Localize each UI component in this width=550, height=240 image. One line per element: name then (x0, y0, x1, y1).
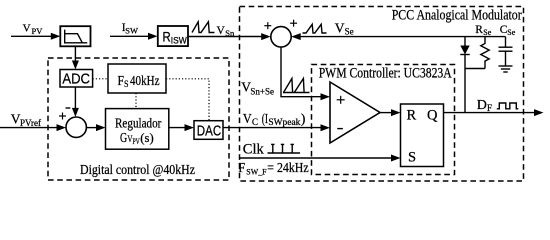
svg-text:ADC: ADC (62, 72, 90, 88)
svg-text:Regulador: Regulador (115, 116, 162, 131)
capacitor C_Se (499, 37, 513, 66)
pulse waveform icon D_F (497, 103, 519, 109)
wire: latch Q output D_F (444, 112, 536, 114)
svg-text:= 24kHz: = 24kHz (267, 160, 308, 175)
plus sign left of S1 (264, 22, 271, 29)
comparator U1 (330, 82, 380, 143)
summing junction S2 (66, 117, 86, 137)
minus sign in comparator (337, 128, 343, 130)
sawtooth icon V_Se (303, 24, 327, 33)
svg-text:PWM Controller: UC3823A: PWM Controller: UC3823A (319, 65, 452, 81)
label V_C (I_SWpeak) (243, 111, 306, 127)
resistor R_Se (481, 37, 489, 69)
R_ISW box (158, 26, 188, 46)
svg-text:R: R (163, 29, 171, 45)
svg-text:SWpeak: SWpeak (268, 117, 301, 127)
big sawtooth icon V_Sn+Se (283, 79, 310, 93)
svg-text:PV: PV (32, 26, 44, 36)
SR latch box (401, 104, 444, 167)
wire: I_SW input (110, 35, 149, 37)
svg-text:(s): (s) (140, 130, 153, 145)
dotted link Fs to DAC (166, 79, 209, 121)
ground (499, 66, 513, 72)
minus sign at S2 (66, 107, 71, 109)
svg-text:): ) (301, 111, 306, 126)
svg-text:G: G (120, 131, 127, 146)
svg-text:Q: Q (427, 108, 438, 124)
clock pulse icon (268, 144, 301, 153)
svg-text:Sn+Se: Sn+Se (250, 87, 274, 97)
diode D1 (464, 37, 466, 46)
DAC box (194, 121, 223, 140)
svg-text:S: S (408, 150, 416, 166)
svg-text:C: C (252, 117, 258, 127)
wire: V_PVref input (0, 127, 58, 129)
filter icon (65, 30, 88, 43)
svg-text:R: R (475, 24, 483, 36)
dashed box: Digital control @40kHz (48, 58, 229, 180)
dashed box: PCC Analogical Modulator (240, 7, 524, 182)
low-pass filter box F1 (60, 26, 90, 46)
svg-text:V: V (243, 112, 252, 127)
svg-text:PVref: PVref (20, 118, 41, 128)
svg-text:Clk: Clk (243, 141, 265, 157)
svg-text:S: S (124, 79, 129, 89)
wire: filter to ADC (74, 46, 76, 61)
wire: Regulador to DAC (169, 127, 186, 129)
Regulador Gv(s) box (106, 109, 169, 150)
svg-text:Se: Se (483, 28, 491, 37)
svg-text:Sn: Sn (225, 28, 235, 38)
svg-text:D: D (477, 98, 487, 113)
svg-text:(I: (I (262, 111, 269, 126)
svg-text:SW: SW (125, 25, 138, 35)
wire: V_PV input (11, 35, 52, 37)
plus sign in comparator (337, 96, 345, 104)
dotted link Fs to Regulador (135, 93, 137, 109)
wire: S1 down to comparator plus (281, 47, 322, 97)
summing junction S1 (271, 27, 291, 47)
svg-text:R: R (407, 108, 417, 124)
svg-text:Se: Se (345, 26, 354, 36)
ADC box (60, 70, 93, 88)
svg-text:Digital control @40kHz: Digital control @40kHz (80, 163, 195, 178)
wire: Clk to latch S (240, 157, 393, 159)
label Gv_PV(s) (120, 130, 154, 146)
dashed box: PWM Controller UC3823A (312, 65, 455, 175)
Fs 40kHz box (108, 64, 166, 93)
wire: R_ISW to summing circle 1 (188, 36, 262, 38)
svg-text:Se: Se (507, 28, 515, 37)
svg-text:PCC Analogical Modulator: PCC Analogical Modulator (392, 8, 522, 24)
svg-text:V: V (217, 25, 226, 37)
svg-text:PV: PV (133, 137, 140, 146)
svg-text:F: F (238, 161, 245, 176)
svg-text:F: F (487, 103, 492, 113)
svg-text:V: V (23, 22, 31, 34)
wire: comparator to latch R (380, 112, 392, 114)
label F_SW_F = 24kHz (238, 160, 308, 176)
wire: DAC to comparator minus (223, 127, 322, 129)
dotted link ADC to Fs (93, 78, 108, 80)
svg-text:ISW: ISW (171, 36, 187, 46)
wire: S2 to Regulador (86, 127, 97, 129)
wire: ADC to summing circle 2 (74, 87, 76, 109)
svg-text:SW_F: SW_F (246, 166, 267, 176)
svg-text:V: V (335, 20, 345, 35)
plus sign at S2 (59, 113, 66, 120)
wire: diode-resistor bottom connector (465, 68, 485, 70)
plus sign right of S1 (290, 20, 297, 27)
wire: diode branch down to D_F line (464, 55, 466, 113)
wire: V_Se feedback into S1 (arrow points left) (300, 36, 506, 38)
svg-text:DAC: DAC (197, 124, 221, 140)
sawtooth icon V_Sn (192, 22, 215, 33)
svg-text:40kHz: 40kHz (130, 73, 160, 88)
